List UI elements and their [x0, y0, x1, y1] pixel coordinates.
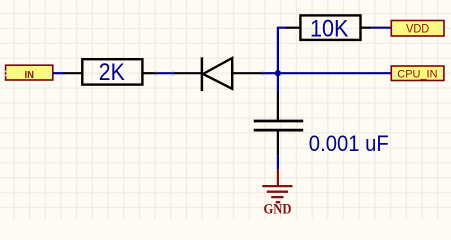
svg-text:10K: 10K	[310, 15, 349, 42]
resistor R2 10K	[286, 15, 371, 42]
wire junction to CPU_IN	[278, 72, 391, 74]
diode D1	[173, 57, 264, 91]
port VDD	[391, 21, 444, 37]
port IN	[5, 65, 53, 81]
svg-text:IN: IN	[25, 69, 35, 81]
capacitor C1	[254, 92, 304, 155]
wire D1 to junction	[261, 71, 279, 76]
port CPU_IN	[391, 66, 444, 81]
svg-text:CPU_IN: CPU_IN	[397, 68, 437, 80]
svg-text:0.001 uF: 0.001 uF	[309, 131, 389, 156]
wire C1 to GND	[277, 155, 279, 169]
wire junction to 10K (up and right)	[278, 28, 287, 73]
ground GND	[262, 170, 292, 218]
svg-text:GND: GND	[263, 201, 291, 217]
wire IN to R1	[53, 72, 65, 74]
resistor R1 2K	[64, 59, 157, 86]
wire R1 to D1	[155, 71, 175, 76]
svg-text:2K: 2K	[99, 59, 125, 86]
wire junction to C1	[277, 73, 279, 92]
junction node	[275, 70, 281, 76]
svg-text:VDD: VDD	[406, 23, 429, 35]
wire 10K to VDD	[371, 27, 391, 29]
